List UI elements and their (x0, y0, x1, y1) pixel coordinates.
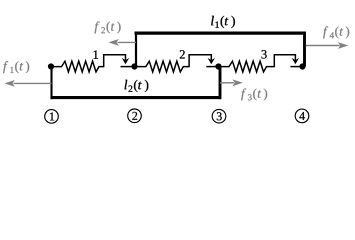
wire stub into node (206, 66, 218, 68)
bracket l1 (top thick bar from node 2 up, across, down to node 4) (135, 32, 137, 67)
spring connector step and down-arrow (189, 55, 211, 67)
spring connector step and down-arrow (274, 55, 295, 67)
wire stub into node (290, 66, 302, 68)
label 2 (spring 2 number) (180, 50, 185, 58)
circled node number 4 (295, 109, 309, 123)
force arrow f2 (gray, points left from bracket l1) (118, 41, 137, 43)
label 3 (spring 3 number) (262, 50, 267, 58)
label f4(t) (323, 26, 349, 38)
label f1(t) (3, 61, 29, 73)
bracket l2 (bottom thick bar from node 1 down, across, up to node 3) (50, 67, 52, 100)
label l2(t) (125, 80, 149, 92)
spring 1 (zigzag between node 1 and node 2) (51, 61, 104, 72)
wire stub into node (121, 66, 135, 68)
circled node number 3 (212, 109, 226, 123)
circled node number 1 (45, 110, 59, 124)
force arrow f3 (gray, points right from bracket l2) (220, 82, 234, 84)
spring 2 (zigzag between node 2 and node 3) (135, 61, 190, 72)
spring 3 (zigzag between node 3 and node 4) (219, 61, 275, 72)
force arrow f1 (gray, points left from bracket l2) (14, 82, 52, 84)
force arrow f4 (gray, points right from bracket l1) (306, 45, 340, 47)
node 1 dot (48, 63, 54, 69)
spring connector step and down-arrow (104, 55, 126, 67)
node 3 dot (215, 63, 221, 69)
node 4 dot (299, 63, 305, 69)
label l1(t) (211, 16, 235, 28)
label f2(t) (95, 21, 121, 33)
circled node number 2 (128, 109, 142, 123)
label f3(t) (241, 88, 267, 100)
label 1 (spring 1 number) (94, 50, 98, 58)
node 2 dot (131, 63, 137, 69)
